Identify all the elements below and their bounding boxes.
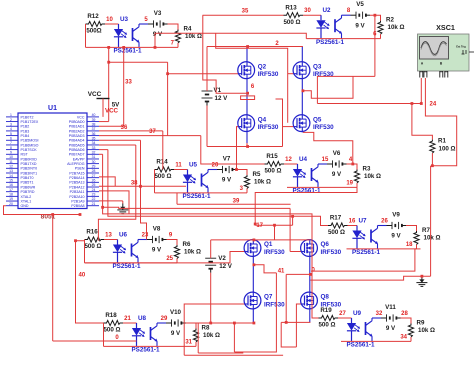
wire R18 left loop (103, 323, 105, 346)
wire V8 to R6 (167, 240, 178, 246)
svg-text:PS2561-1: PS2561-1 (113, 48, 142, 55)
node 28 (401, 311, 408, 317)
resistor R15 (264, 153, 284, 174)
node 24 (430, 102, 437, 108)
svg-text:P3B7RD: P3B7RD (21, 190, 35, 194)
svg-text:33: 33 (92, 146, 96, 150)
svg-text:P0B7AD7: P0B7AD7 (69, 153, 85, 157)
node 17 (256, 223, 263, 229)
svg-text:U6: U6 (119, 231, 128, 238)
wire U7 out down (311, 249, 415, 271)
svg-text:U2: U2 (322, 7, 331, 14)
wire Q1 gate (177, 252, 244, 263)
svg-text:34: 34 (92, 141, 96, 145)
svg-text:V8: V8 (153, 226, 161, 233)
transistor Q6 (300, 240, 341, 257)
svg-text:IRF530: IRF530 (258, 124, 279, 131)
svg-text:1: 1 (10, 113, 12, 117)
node 37 (149, 129, 156, 135)
wire R7 bottom lead (416, 245, 418, 249)
svg-text:10k Ω: 10k Ω (254, 178, 271, 185)
svg-text:P1B1T2EX: P1B1T2EX (21, 120, 39, 124)
svg-text:23: 23 (142, 232, 149, 238)
svg-text:12: 12 (285, 157, 292, 163)
wire R15 to U4 (284, 163, 298, 165)
svg-text:PS2561-1: PS2561-1 (182, 193, 211, 200)
wire Q1 source to Q7 drain (252, 256, 254, 292)
node 7 (171, 40, 175, 46)
svg-text:500 Ω: 500 Ω (283, 19, 300, 26)
wire R17 to U7 (348, 225, 358, 227)
svg-text:10: 10 (9, 155, 13, 159)
optocoupler U8 (131, 315, 166, 354)
resistor R3 (354, 165, 381, 183)
resistor R12 (86, 13, 106, 34)
svg-text:7: 7 (10, 141, 12, 145)
optocoupler U3 (113, 16, 148, 55)
wire V1 minus rail (207, 106, 283, 148)
wire Q6 source to Q8 drain (309, 256, 311, 292)
svg-text:36: 36 (92, 132, 96, 136)
svg-text:25: 25 (92, 183, 96, 187)
node 8 (347, 8, 351, 14)
transistor Q5 (293, 115, 334, 132)
wire net41 down (234, 273, 276, 352)
svg-text:P3B5T1: P3B5T1 (21, 181, 34, 185)
svg-text:500 Ω: 500 Ω (103, 327, 120, 334)
svg-text:31: 31 (185, 339, 192, 345)
svg-text:33: 33 (125, 80, 132, 86)
svg-text:PS2561-1: PS2561-1 (292, 188, 321, 195)
svg-text:10k Ω: 10k Ω (418, 327, 435, 334)
wire Q3 drain (301, 47, 303, 62)
node 29 (161, 316, 168, 322)
svg-text:RST: RST (21, 153, 29, 157)
svg-text:GND: GND (21, 204, 29, 208)
wire R13 to U2 (303, 14, 321, 16)
svg-text:15: 15 (322, 157, 329, 163)
svg-text:R4: R4 (184, 25, 192, 32)
svg-text:PS2561-1: PS2561-1 (352, 249, 381, 256)
svg-text:18: 18 (406, 242, 413, 248)
svg-text:P0B3AD3: P0B3AD3 (69, 134, 85, 138)
wire net0 down (285, 274, 287, 322)
svg-text:P2B2A10: P2B2A10 (69, 195, 84, 199)
svg-text:17: 17 (256, 223, 263, 229)
wire scope A minus (425, 78, 456, 167)
wire Q3 gate net2 (216, 33, 294, 123)
optocoupler U7 (352, 217, 387, 256)
svg-text:R6: R6 (183, 241, 191, 248)
transistor Q2 (238, 62, 279, 79)
battery V2 (205, 240, 233, 273)
wire row7 emitter rail (104, 345, 197, 347)
svg-text:R17: R17 (330, 215, 342, 222)
svg-text:9 V: 9 V (153, 31, 163, 38)
transistor Q1 (244, 240, 285, 257)
battery V3 (148, 10, 168, 38)
svg-text:12 V: 12 V (215, 95, 229, 102)
wire Q2 source to Q4 drain (246, 79, 248, 115)
svg-text:Q2: Q2 (258, 63, 267, 70)
svg-text:3: 3 (10, 122, 12, 126)
svg-text:P0B6AD6: P0B6AD6 (69, 148, 85, 152)
node 33 (125, 80, 132, 86)
svg-text:R16: R16 (86, 229, 98, 236)
svg-text:37: 37 (92, 127, 96, 131)
node 30 (304, 8, 311, 14)
svg-text:Q4: Q4 (258, 116, 267, 123)
svg-text:500 Ω: 500 Ω (84, 243, 101, 250)
svg-text:R9: R9 (417, 319, 425, 326)
svg-text:Q6: Q6 (321, 241, 330, 248)
ground center (117, 204, 128, 214)
svg-text:U7: U7 (358, 217, 367, 224)
wire R4 bottom lead (177, 43, 179, 47)
svg-text:P0B2AD2: P0B2AD2 (69, 129, 85, 133)
wire net39 long (177, 193, 291, 204)
svg-text:R13: R13 (285, 4, 297, 11)
wire net33 vertical (122, 46, 125, 126)
svg-text:P3B0RXD: P3B0RXD (21, 157, 38, 161)
resistor R9 (408, 319, 435, 337)
transistor Q8 (300, 292, 341, 309)
resistor R4 (175, 25, 202, 43)
svg-text:31: 31 (92, 155, 96, 159)
svg-text:P3B3INT1: P3B3INT1 (21, 171, 38, 175)
ground right (416, 275, 427, 287)
svg-text:20: 20 (9, 202, 13, 206)
wire pin25 feed (99, 185, 186, 188)
svg-text:5: 5 (10, 132, 12, 136)
wire Q8 source (309, 309, 311, 323)
battery V6 (327, 150, 347, 178)
node 12 (285, 157, 292, 163)
svg-text:R12: R12 (87, 13, 99, 20)
svg-text:Q7: Q7 (264, 294, 273, 301)
svg-text:R7: R7 (422, 227, 430, 234)
wire R16 left loop (84, 240, 86, 263)
wire U4 out left (254, 187, 357, 225)
svg-text:Q8: Q8 (321, 294, 330, 301)
node 21 (124, 316, 131, 322)
wire row8 emitter rail (341, 340, 411, 342)
node 10 (106, 17, 113, 23)
svg-text:500 Ω: 500 Ω (264, 168, 281, 175)
svg-text:26: 26 (381, 218, 388, 224)
svg-text:500Ω: 500Ω (86, 28, 101, 35)
power VCC (88, 91, 120, 117)
wire net18 rail to bridge (310, 276, 430, 280)
svg-text:26: 26 (92, 179, 96, 183)
svg-text:9 V: 9 V (391, 233, 401, 240)
svg-text:XTAL2: XTAL2 (21, 195, 32, 199)
svg-text:10k Ω: 10k Ω (184, 248, 201, 255)
resistor R14 (154, 159, 174, 180)
svg-text:15: 15 (9, 179, 13, 183)
svg-text:16: 16 (349, 218, 356, 224)
svg-text:P2B5A13: P2B5A13 (69, 181, 84, 185)
svg-text:V5: V5 (356, 1, 364, 8)
optocoupler U2 (316, 7, 351, 46)
svg-text:500 Ω: 500 Ω (154, 173, 171, 180)
resistor R5 (244, 171, 271, 189)
transistor Q7 (244, 292, 285, 309)
wire R18 to U8 (123, 322, 137, 324)
svg-text:14: 14 (9, 174, 13, 178)
node 38 (131, 180, 138, 186)
wire row4 emitter rail (287, 186, 357, 188)
svg-text:9 V: 9 V (171, 330, 181, 337)
svg-text:30: 30 (304, 8, 311, 14)
node 3 (240, 186, 244, 192)
svg-text:V11: V11 (385, 304, 396, 311)
wire row2 emitter rail (306, 38, 380, 40)
svg-text:11: 11 (175, 162, 182, 168)
wire net24 box (317, 76, 375, 103)
svg-text:40: 40 (79, 272, 86, 278)
svg-text:R15: R15 (266, 153, 278, 160)
svg-text:21: 21 (92, 202, 96, 206)
wire row6 out (415, 248, 421, 250)
svg-text:9 V: 9 V (222, 177, 232, 184)
svg-text:21: 21 (124, 316, 131, 322)
svg-text:P3B4T0: P3B4T0 (21, 176, 34, 180)
node 26 (381, 218, 388, 224)
battery V7 (217, 156, 237, 184)
svg-text:10k Ω: 10k Ω (388, 24, 405, 31)
svg-text:IRF530: IRF530 (313, 71, 334, 78)
resistor R7 (414, 227, 441, 245)
wire R8 bottom lead (195, 342, 197, 346)
svg-text:9 V: 9 V (152, 247, 162, 254)
svg-text:U9: U9 (353, 310, 362, 317)
wire row3 emitter rail (155, 192, 248, 194)
svg-text:17: 17 (9, 188, 13, 192)
resistor R16 (84, 229, 104, 250)
svg-text:10: 10 (106, 17, 113, 23)
wire net36 vertical (166, 62, 169, 135)
svg-text:27: 27 (339, 311, 346, 317)
wire net35 vertical (203, 15, 249, 94)
wire V9 to R7 (406, 226, 417, 232)
svg-text:6: 6 (10, 136, 12, 140)
svg-text:XSC1: XSC1 (436, 23, 455, 32)
node 5 (144, 17, 148, 23)
node 23 (142, 232, 149, 238)
svg-text:U1: U1 (48, 105, 57, 112)
node 4 (349, 157, 353, 163)
node 20 (212, 162, 219, 168)
svg-text:V2: V2 (218, 255, 226, 262)
wire bottom long rail (184, 354, 283, 356)
svg-text:P1B4: P1B4 (21, 134, 30, 138)
svg-text:18: 18 (9, 193, 13, 197)
svg-text:PS2561-1: PS2561-1 (131, 347, 160, 354)
svg-text:39: 39 (92, 118, 96, 122)
svg-text:32: 32 (92, 150, 96, 154)
wire Q5 source to node4 (303, 132, 354, 165)
wire Q8 source down (281, 322, 296, 347)
svg-text:P1B7SCK: P1B7SCK (21, 148, 38, 152)
wire U2 out to Q3 (154, 33, 307, 49)
svg-text:38: 38 (131, 180, 138, 186)
svg-text:IRF530: IRF530 (264, 249, 285, 256)
svg-text:R8: R8 (202, 324, 210, 331)
svg-text:25: 25 (166, 256, 173, 262)
wire Q7 source loop (198, 322, 243, 353)
wire Q5 source (301, 131, 303, 132)
wire Q3 source tap (302, 89, 318, 98)
wire V6 to R3 (347, 164, 358, 170)
svg-text:4: 4 (10, 127, 12, 131)
svg-text:P2B1A9: P2B1A9 (71, 199, 84, 203)
wire V10 to R8 (186, 323, 197, 329)
wire Q7 source (252, 309, 254, 323)
wire R1 down vertical (430, 166, 432, 277)
battery V5 (351, 1, 371, 29)
svg-text:20: 20 (212, 162, 219, 168)
svg-text:P1B3: P1B3 (21, 129, 30, 133)
wire row1 emitter rail (86, 46, 179, 48)
node 18 (406, 242, 413, 248)
svg-text:38: 38 (92, 122, 96, 126)
wire Q5 gate (276, 99, 294, 147)
wire pin33 feed (99, 150, 328, 226)
wire net35 horizontal (203, 14, 284, 16)
optocoupler U4 (292, 156, 327, 195)
svg-text:VCC: VCC (77, 115, 85, 119)
svg-text:34: 34 (400, 334, 407, 340)
node 0 (115, 335, 119, 341)
svg-text:40: 40 (92, 113, 96, 117)
transistor Q3 (293, 62, 334, 79)
node 39 (233, 199, 240, 205)
svg-text:P3B1TXD: P3B1TXD (21, 162, 37, 166)
svg-text:P1B2: P1B2 (21, 125, 30, 129)
node 0 bridge (312, 267, 316, 273)
svg-text:8: 8 (10, 146, 12, 150)
wire Q1 source tap (253, 263, 277, 273)
node 6 (373, 32, 377, 38)
svg-text:Q3: Q3 (313, 63, 322, 70)
svg-text:24: 24 (430, 102, 437, 108)
wire R14 left loop (154, 170, 156, 193)
wire Q4 gate feed (235, 127, 238, 171)
wire pin22 gnd (99, 201, 123, 204)
svg-text:10k Ω: 10k Ω (185, 33, 202, 40)
wire net17 vertical (255, 215, 294, 240)
wire R12 left loop (85, 24, 87, 47)
svg-text:PS2561-1: PS2561-1 (346, 342, 375, 349)
svg-text:P0B0AD0: P0B0AD0 (69, 120, 85, 124)
resistor R6 (174, 241, 201, 259)
wire row5 emitter rail (85, 262, 178, 264)
svg-text:P1B6MISO: P1B6MISO (21, 143, 39, 147)
node 31 (185, 339, 192, 345)
svg-text:V10: V10 (170, 309, 182, 316)
svg-text:P3B2INT0: P3B2INT0 (21, 167, 38, 171)
wire pin32 feed (99, 154, 319, 318)
svg-text:29: 29 (161, 316, 168, 322)
svg-text:PSEN: PSEN (75, 167, 85, 171)
node 40 (79, 272, 86, 278)
wire Q2 drain (246, 47, 248, 62)
wire Q3 source to Q5 drain (301, 79, 303, 115)
node 36 (121, 125, 128, 131)
svg-text:IRF530: IRF530 (264, 301, 285, 308)
svg-text:P3B6WR: P3B6WR (21, 185, 36, 189)
svg-text:19: 19 (346, 180, 353, 186)
svg-text:9 V: 9 V (355, 22, 365, 29)
svg-text:EAVPP: EAVPP (73, 157, 85, 161)
wire scope A plus (420, 78, 422, 104)
battery V1 (202, 47, 229, 106)
svg-text:VCC: VCC (105, 108, 119, 115)
svg-text:P2B3A11: P2B3A11 (70, 190, 85, 194)
wire R19 to U9 (338, 317, 352, 319)
wire mesh stub (101, 206, 290, 209)
svg-text:13: 13 (9, 169, 13, 173)
svg-text:36: 36 (121, 125, 128, 131)
svg-text:11: 11 (9, 160, 13, 164)
wire Q6 source tap (286, 273, 312, 276)
svg-text:U3: U3 (120, 16, 129, 23)
transistor Q4 (238, 115, 279, 132)
svg-text:P0B5AD5: P0B5AD5 (69, 143, 85, 147)
resistor R1 (430, 138, 456, 154)
svg-text:10k Ω: 10k Ω (203, 332, 220, 339)
node 25 (166, 256, 173, 262)
svg-text:R2: R2 (386, 17, 394, 24)
svg-text:V9: V9 (392, 212, 400, 219)
svg-text:19: 19 (9, 197, 13, 201)
svg-text:24: 24 (92, 188, 96, 192)
wire net24 to R1 (412, 104, 433, 140)
svg-text:500 Ω: 500 Ω (328, 229, 345, 236)
wire V7 to R5 (237, 170, 248, 176)
battery V10 (166, 309, 186, 337)
svg-text:12 V: 12 V (219, 263, 233, 270)
svg-text:IRF530: IRF530 (321, 301, 342, 308)
wire R3 bottom lead (356, 183, 358, 187)
node 13 (105, 232, 112, 238)
svg-text:37: 37 (149, 129, 156, 135)
wire row3 rail ext (85, 262, 178, 264)
svg-text:PS2561-1: PS2561-1 (316, 39, 345, 46)
svg-text:12: 12 (9, 165, 13, 169)
wire GND pin (4, 206, 82, 216)
optocoupler U9 (346, 310, 381, 349)
wire R16 to U6 (104, 239, 118, 241)
node 19 (346, 180, 353, 186)
wire R12 to U3 (105, 23, 119, 25)
svg-text:28: 28 (401, 311, 408, 317)
svg-text:30: 30 (92, 160, 96, 164)
wire row6 emitter rail (347, 248, 417, 250)
wire Q8 gate feed (296, 304, 300, 347)
battery V8 (147, 226, 167, 254)
node 8051 label (41, 213, 56, 220)
wire V11 to R9 (401, 318, 412, 324)
op-amp U1 8051 MCU (6, 105, 99, 209)
wire pin39 (99, 121, 109, 123)
svg-text:41: 41 (278, 269, 285, 275)
svg-text:10k Ω: 10k Ω (424, 234, 441, 241)
svg-text:16: 16 (9, 183, 13, 187)
wire R9 bottom lead (410, 337, 412, 341)
svg-text:IRF530: IRF530 (313, 124, 334, 131)
